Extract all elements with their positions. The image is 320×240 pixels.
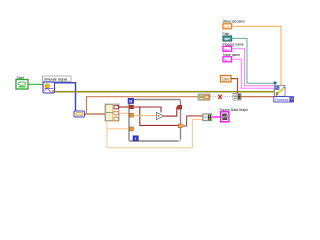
broken wire red X: [218, 95, 222, 99]
wire orange index2 down under loop to bundle: [107, 119, 203, 147]
primitive triangle node (divide): [156, 112, 163, 119]
wire error (dark yellow) Simulate Signal to Write file icon: [55, 91, 275, 93]
svg-text:Value precision: Value precision: [223, 19, 245, 23]
tunnel red right: [178, 105, 182, 109]
svg-text:abc: abc: [224, 58, 229, 62]
polymorphic selector Numeric: [274, 97, 294, 102]
svg-text:i: i: [135, 136, 136, 141]
svg-text:N: N: [129, 99, 132, 104]
wire maroon inside loop: tunnel right, down to triangle top; junction down to lower rail: [134, 107, 161, 113]
wire brown constant to node2: [231, 79, 238, 94]
for loop border: [129, 100, 181, 142]
broken wire dashed: [210, 96, 233, 98]
svg-text:0.24: 0.24: [224, 25, 230, 29]
string control terminal Process name: [223, 46, 232, 51]
for loop count terminal N: [128, 98, 134, 103]
wire maroon from lower right tunnel to bundle: [183, 116, 203, 126]
svg-text:Numeric: Numeric: [275, 98, 288, 102]
wire pale orange index1 to for-loop left tunnel: [119, 113, 134, 115]
wire pale orange inside loop to triangle: [134, 115, 157, 117]
wire DBL array (brown) convert node to Index Array node, with branch up to node1: [85, 113, 106, 115]
wire maroon index0 to for-loop left tunnel: [119, 106, 132, 108]
wire dynamic data (blue) Simulate Signal to Convert node: [55, 83, 76, 111]
express VI Simulate Signal: [43, 82, 55, 93]
numeric constant DBL (feeds node2): [221, 76, 232, 82]
svg-text:Simulate Signal: Simulate Signal: [44, 77, 68, 81]
node1 (format into string): [198, 94, 210, 100]
numeric control terminal DBL (Value precision): [223, 24, 232, 29]
wire magenta bundle to graph terminal: [212, 116, 221, 118]
wire maroon triangle output up to right tunnel: [164, 107, 179, 116]
string control terminal Trace name: [223, 57, 232, 62]
boolean control terminal Start: [16, 80, 28, 90]
branch into lower-left tunnel: [107, 128, 132, 130]
wire boolean Start to Simulate Signal: [28, 83, 43, 85]
node Index Array (unbundle): [105, 104, 119, 121]
tunnel orange lower right: [178, 124, 182, 128]
tunnel orange left upper: [130, 113, 134, 117]
node Convert from Dynamic Data: [74, 111, 85, 117]
for loop resize notch: [178, 138, 181, 141]
teal wire end stub: [274, 82, 277, 85]
tunnel red left: [130, 105, 134, 109]
for loop iteration terminal i: [133, 136, 138, 141]
label Simulate Signal: [43, 76, 72, 82]
svg-text:1000: 1000: [222, 78, 229, 82]
VI icon Write Trace to File: [275, 85, 286, 96]
wire pink Trace name to write icon: [232, 59, 275, 88]
svg-text:abc: abc: [224, 47, 229, 51]
path control terminal: [223, 36, 232, 41]
svg-text:Path: Path: [223, 32, 230, 36]
indicator terminal Source Data Graph (XY graph): [221, 112, 229, 122]
node2 (array to spreadsheet string): [233, 94, 241, 101]
wire brown node2 to write icon: [241, 96, 275, 98]
tunnel orange left lower: [130, 127, 134, 131]
wire orange Value precision to write icon top: [232, 26, 281, 85]
wire pink Process name to write icon: [232, 49, 275, 86]
node Bundle: [203, 114, 212, 121]
wire teal Path to write icon: [232, 38, 275, 83]
